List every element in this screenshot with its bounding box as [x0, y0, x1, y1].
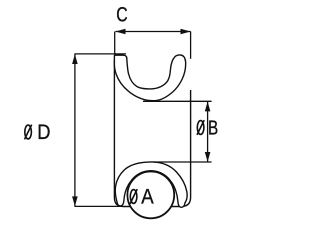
dimension C arrow left	[115, 29, 125, 35]
dimension D line	[74, 54, 76, 207]
circle A	[127, 172, 174, 219]
dimension B arrow down	[205, 152, 211, 162]
label A diameter symbol	[130, 189, 137, 204]
svg-text:C: C	[116, 2, 127, 26]
dimension D bottom extension line	[75, 205, 122, 207]
svg-text:A: A	[141, 186, 154, 209]
right edge upper stub with dimension C right extension	[190, 32, 192, 59]
dimension B bottom extension line	[153, 161, 212, 163]
dimension D arrow up	[72, 54, 78, 64]
dimension D top extension line	[75, 53, 127, 55]
dimension C extension line left	[114, 32, 116, 57]
dimension B arrow up	[205, 102, 211, 112]
dimension B top extension line	[143, 100, 212, 102]
top groove horseshoe (tip, groove wall, dome, outer curve)	[114, 55, 185, 101]
dimension C line	[116, 31, 191, 33]
label B diameter symbol	[197, 120, 204, 135]
svg-text:B: B	[208, 116, 218, 139]
label D diameter symbol	[25, 125, 32, 140]
bottom arch band with feet	[115, 162, 187, 207]
body outline (left edge, bottom, lower right edge)	[114, 60, 190, 207]
dimension C arrow right	[181, 29, 191, 35]
dimension D arrow down	[72, 196, 78, 206]
svg-text:D: D	[37, 121, 50, 144]
dimension B line	[207, 101, 209, 162]
